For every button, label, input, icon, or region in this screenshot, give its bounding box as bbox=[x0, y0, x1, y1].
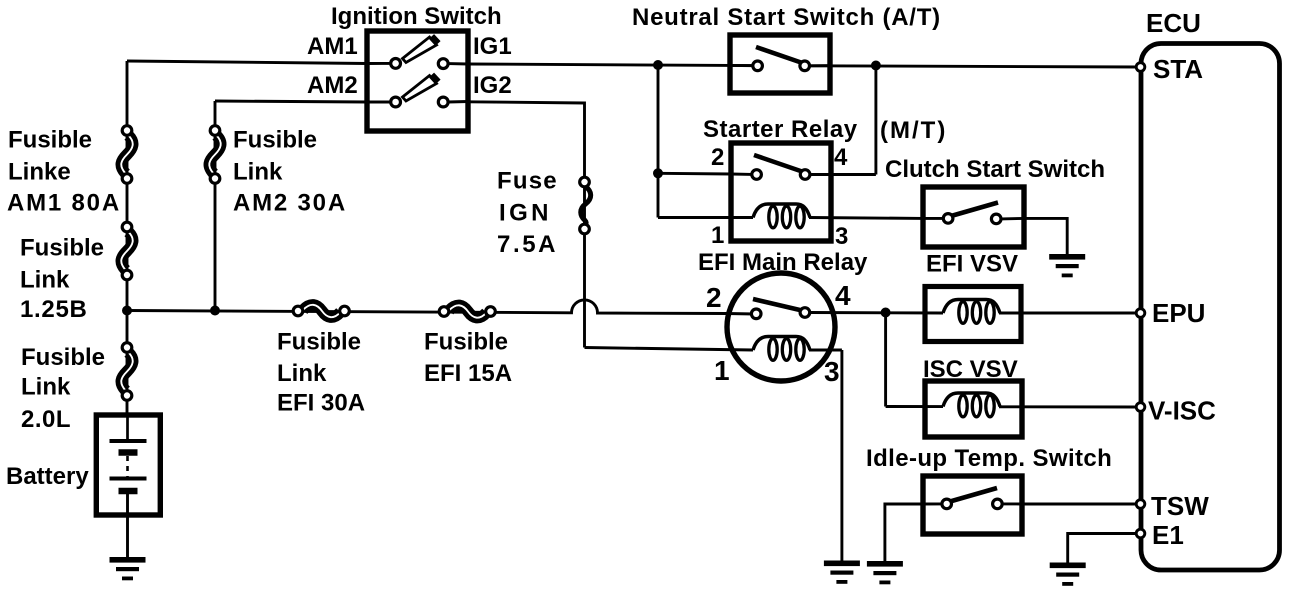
fusible link EFI 30A bbox=[293, 305, 349, 317]
battery internals bbox=[110, 415, 147, 515]
wire: AM2 vertical x=215 bbox=[214, 101, 217, 311]
svg-text:AM1: AM1 bbox=[307, 33, 358, 60]
wire: starter relay contact stubs bbox=[731, 173, 752, 176]
wire: neutral start switch stubs bbox=[730, 64, 753, 67]
wire: fuse IGN vertical x=584.5 bbox=[583, 102, 586, 348]
fusible link AM1 80A bbox=[121, 126, 132, 184]
svg-text:EFI VSV: EFI VSV bbox=[926, 251, 1018, 278]
svg-text:TSW: TSW bbox=[1151, 491, 1209, 521]
svg-text:Ignition Switch: Ignition Switch bbox=[331, 3, 502, 30]
wire: starter relay coil row pin1 feed bbox=[658, 216, 753, 219]
EFI main relay coil bbox=[753, 337, 810, 361]
neutral start switch contacts bbox=[753, 47, 810, 71]
svg-text:Linke: Linke bbox=[8, 159, 71, 186]
svg-text:Fusible: Fusible bbox=[8, 127, 92, 154]
svg-text:AM2: AM2 bbox=[307, 72, 358, 99]
ignition switch contacts row2 bbox=[391, 75, 448, 107]
svg-text:ECU: ECU bbox=[1146, 8, 1201, 38]
wire: main 12V bus with hop over fuse line bbox=[127, 300, 755, 314]
svg-text:Fusible: Fusible bbox=[233, 127, 317, 154]
svg-text:IGN: IGN bbox=[499, 200, 552, 227]
svg-text:Link: Link bbox=[233, 159, 283, 186]
wire: left vertical battery feed x=127 bbox=[126, 61, 129, 417]
svg-text:4: 4 bbox=[834, 144, 848, 171]
wire: clutch switch to ground bbox=[1024, 218, 1067, 256]
ECU pin STA bbox=[1136, 63, 1145, 72]
wire: coil row to clutch start switch bbox=[809, 216, 923, 220]
fuse IGN symbol bbox=[580, 177, 591, 234]
idle-up temp switch box bbox=[923, 476, 1022, 534]
wire: ignition switch row2 stubs bbox=[367, 101, 391, 104]
junction node bus-left bbox=[122, 306, 132, 316]
wire: starter relay pin2 feed bbox=[658, 172, 731, 176]
ignition switch contacts row1 bbox=[391, 37, 448, 69]
neutral start switch box bbox=[730, 35, 830, 93]
svg-text:STA: STA bbox=[1153, 54, 1203, 84]
wire: EFI relay contact row to EPU bbox=[810, 311, 943, 314]
svg-text:ISC VSV: ISC VSV bbox=[923, 356, 1018, 383]
wire: battery negative to ground bbox=[126, 513, 129, 559]
svg-text:3: 3 bbox=[835, 223, 848, 250]
ground idle-up switch bbox=[867, 561, 903, 584]
wire: idle-up switch left leg to ground bbox=[885, 504, 923, 562]
svg-text:Fusible: Fusible bbox=[424, 329, 508, 356]
wire: STA row from left corner to ECU STA pin bbox=[127, 61, 367, 64]
svg-text:Fuse: Fuse bbox=[497, 168, 558, 195]
wire: starter relay pin4 to MT vertical bbox=[831, 173, 876, 176]
svg-text:IG2: IG2 bbox=[473, 72, 512, 99]
wire: IG2 from switch to fuse IGN vertical bbox=[468, 102, 585, 103]
junction node starter relay pin2 bbox=[653, 168, 663, 178]
svg-text:E1: E1 bbox=[1152, 520, 1184, 550]
wire: EFI main relay coil row (pin1 feed) bbox=[585, 348, 754, 351]
svg-text:AM2 30A: AM2 30A bbox=[233, 190, 347, 217]
idle-up temp switch contacts bbox=[942, 488, 1002, 509]
EFI VSV box bbox=[925, 287, 1021, 342]
svg-text:Clutch Start Switch: Clutch Start Switch bbox=[885, 156, 1105, 183]
svg-text:Link: Link bbox=[20, 267, 70, 294]
junction node bus-AM2 bbox=[210, 306, 220, 316]
clutch start switch box bbox=[923, 187, 1024, 247]
EFI main relay circle bbox=[727, 273, 835, 381]
svg-text:EFI 30A: EFI 30A bbox=[277, 390, 365, 417]
wire: ignition switch row1 stubs bbox=[367, 62, 391, 65]
svg-text:1.25B: 1.25B bbox=[20, 296, 88, 323]
svg-text:3: 3 bbox=[824, 356, 840, 387]
svg-text:Starter Relay: Starter Relay bbox=[703, 116, 858, 143]
wire: ISC VSV row to V-ISC pin bbox=[886, 405, 943, 408]
svg-text:7.5A: 7.5A bbox=[497, 231, 558, 258]
ISC VSV box bbox=[925, 381, 1022, 437]
ECU box outline bbox=[1141, 44, 1280, 571]
svg-text:4: 4 bbox=[835, 280, 851, 311]
wire: relay coil to pin3 corner bbox=[809, 349, 842, 352]
ISC VSV coil bbox=[943, 393, 1000, 417]
svg-text:Battery: Battery bbox=[6, 463, 89, 490]
clutch start switch contacts bbox=[943, 203, 1001, 224]
svg-text:2: 2 bbox=[706, 282, 722, 313]
wire: idle-up switch stubs bbox=[923, 502, 942, 505]
ECU pin E1 bbox=[1136, 529, 1145, 538]
ground EFI main relay pin3 bbox=[824, 561, 860, 584]
svg-text:2: 2 bbox=[711, 144, 724, 171]
svg-text:IG1: IG1 bbox=[473, 33, 512, 60]
fusible link 2.0L bbox=[121, 343, 132, 401]
wire: AM2 row bbox=[215, 101, 367, 102]
svg-text:1: 1 bbox=[711, 222, 724, 249]
wire: starter relay left vertical x=658 bbox=[657, 65, 660, 218]
svg-text:1: 1 bbox=[714, 355, 730, 386]
svg-text:Link: Link bbox=[277, 360, 327, 387]
svg-text:Fusible: Fusible bbox=[21, 344, 105, 371]
starter relay contacts bbox=[752, 155, 810, 179]
EFI VSV coil bbox=[943, 300, 1000, 324]
wire: pin3 vertical to ground bbox=[840, 350, 843, 561]
starter relay coil bbox=[753, 204, 810, 228]
ECU pin V-ISC bbox=[1136, 403, 1145, 412]
svg-text:V-ISC: V-ISC bbox=[1148, 396, 1216, 426]
svg-text:Fusible: Fusible bbox=[20, 235, 104, 262]
svg-text:Idle-up Temp. Switch: Idle-up Temp. Switch bbox=[866, 445, 1112, 472]
EFI main relay contacts bbox=[751, 299, 809, 319]
svg-text:EFI Main Relay: EFI Main Relay bbox=[698, 249, 868, 276]
junction node STA row right bbox=[871, 61, 881, 71]
svg-text:Fusible: Fusible bbox=[277, 329, 361, 356]
ECU pin EPU bbox=[1136, 309, 1145, 318]
svg-text:AM1 80A: AM1 80A bbox=[7, 190, 121, 217]
junction node STA row left bbox=[653, 60, 663, 70]
fusible link EFI 15A bbox=[439, 305, 495, 317]
svg-text:2.0L: 2.0L bbox=[21, 406, 71, 433]
wire: idle-up switch to TSW pin bbox=[1022, 503, 1140, 506]
ground battery bbox=[110, 557, 146, 580]
fusible link 1.25B bbox=[121, 222, 132, 280]
svg-text:EPU: EPU bbox=[1152, 298, 1205, 328]
svg-text:Link: Link bbox=[21, 374, 71, 401]
ignition switch box bbox=[367, 31, 468, 131]
wire: clutch switch stubs bbox=[923, 217, 943, 220]
fusible link AM2 30A bbox=[209, 126, 220, 184]
svg-text:Neutral Start Switch (A/T): Neutral Start Switch (A/T) bbox=[632, 4, 941, 31]
svg-text:(M/T): (M/T) bbox=[880, 117, 947, 144]
ground clutch start switch bbox=[1049, 254, 1085, 277]
ground E1 bbox=[1050, 563, 1086, 586]
wire: E1 pin to ground bbox=[1068, 534, 1140, 564]
battery box bbox=[96, 415, 160, 515]
starter relay box bbox=[731, 143, 831, 241]
wire: EPU junction vertical x=885.6 bbox=[884, 313, 887, 407]
junction node EPU row bbox=[881, 308, 891, 318]
svg-text:EFI 15A: EFI 15A bbox=[424, 360, 512, 387]
ECU pin TSW bbox=[1136, 500, 1145, 509]
wire: MT vertical x=875.9 bbox=[874, 66, 877, 175]
